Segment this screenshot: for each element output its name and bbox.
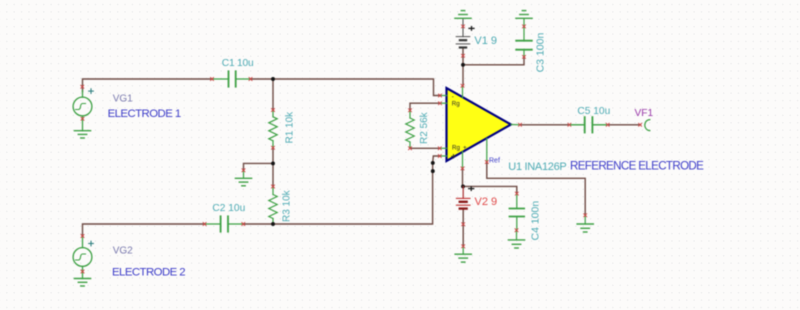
wire R2 bottom to Rg bottom pin — [410, 147, 440, 149]
node C1/R1 junction — [271, 77, 275, 81]
svg-text:C1 10u: C1 10u — [222, 58, 254, 69]
wire middle column C1 junction down to R1 — [272, 79, 274, 110]
wire op-amp V- down to V2 junction — [462, 168, 464, 186]
wire mid node to ground stub — [244, 163, 274, 170]
op-amp U1 triangle — [447, 88, 512, 161]
node R3/bottom wire junction — [271, 222, 275, 226]
op-amp internal pin labels — [452, 94, 467, 152]
ground ref electrode — [577, 215, 593, 232]
svg-text:R1 10k: R1 10k — [285, 111, 296, 144]
wire R2 top to Rg top pin — [410, 103, 440, 110]
wire top electrode1: VG1 to C1 — [83, 79, 213, 92]
node V+ / C3 junction — [461, 63, 465, 67]
ground above C3 — [516, 11, 532, 19]
capacitor C4 — [510, 194, 525, 231]
svg-text:V2 9: V2 9 — [475, 196, 498, 208]
plus sign V1 — [469, 27, 474, 31]
capacitor C3 — [516, 19, 532, 57]
svg-text:C3 100n: C3 100n — [535, 33, 547, 73]
svg-text:VG1: VG1 — [113, 94, 133, 105]
ground mid (R1/R3 node) — [235, 170, 251, 186]
svg-text:REFERENCE ELECTRODE: REFERENCE ELECTRODE — [570, 159, 704, 172]
svg-text:ELECTRODE 2: ELECTRODE 2 — [112, 266, 185, 278]
wire C5 to VF1 probe — [608, 124, 641, 126]
wire mid node down to R3 — [272, 163, 274, 186]
voltage source VG2 — [73, 236, 92, 279]
wire V+ junction to C3 — [463, 57, 524, 65]
svg-text:V1 9: V1 9 — [474, 35, 497, 47]
probe VF1 — [645, 120, 650, 131]
resistor R1 — [269, 110, 277, 148]
plus sign VG2 — [89, 241, 94, 246]
ground below V2 — [455, 246, 471, 262]
wire C2 right to plus input column — [243, 171, 432, 224]
wire V2 junction to C4 — [463, 186, 517, 193]
svg-text:R3 10k: R3 10k — [282, 189, 293, 222]
svg-text:R2 56k: R2 56k — [419, 111, 430, 144]
ground below VG2 — [74, 279, 90, 287]
svg-text:VG2: VG2 — [113, 246, 133, 257]
node V- / V2 / C4 junction — [461, 184, 465, 188]
wire R1 bottom to mid node — [272, 148, 274, 164]
capacitor C2 — [205, 216, 244, 231]
ground below C4 — [508, 230, 524, 248]
voltage source VG1 — [73, 91, 92, 131]
node plus-input column dot B — [431, 169, 435, 173]
wire V2 bottom to ground — [462, 209, 464, 247]
ground above V1 — [455, 11, 471, 19]
wire plus-input column upper segment — [433, 156, 440, 171]
svg-text:Rg: Rg — [452, 101, 460, 108]
svg-text:C2 10u: C2 10u — [212, 203, 245, 214]
capacitor C1 — [212, 71, 251, 86]
svg-text:Rg: Rg — [452, 144, 460, 151]
wire Ref pin to ref ground — [487, 162, 585, 215]
battery V2 — [456, 186, 470, 208]
plus sign VG1 — [89, 89, 94, 94]
svg-text:Ref: Ref — [489, 158, 500, 165]
resistor R2 — [406, 110, 414, 148]
wire op-amp output to C5 — [520, 124, 569, 126]
plus sign V2 — [469, 187, 474, 191]
battery V1 — [456, 19, 470, 48]
svg-text:VF1: VF1 — [635, 108, 654, 119]
capacitor C5 — [569, 117, 607, 132]
op-amp pin stubs — [440, 86, 520, 169]
ground below VG1 — [74, 131, 90, 138]
svg-text:U1 INA126P: U1 INA126P — [508, 161, 566, 173]
node R1/R3/ground junction — [271, 161, 275, 165]
wire V+ junction down to op-amp — [462, 65, 464, 86]
svg-text:+: + — [463, 144, 467, 151]
wire V1 bottom to V+ junction — [462, 48, 464, 65]
svg-text:ELECTRODE 1: ELECTRODE 1 — [108, 108, 181, 120]
svg-text:C4 100n: C4 100n — [530, 201, 542, 241]
resistor R3 — [269, 187, 277, 225]
wire C1 right to op-amp minus input jog — [251, 79, 441, 96]
pin cross marks — [81, 25, 642, 273]
node plus-input column dot A — [431, 161, 435, 165]
svg-text:C5 10u: C5 10u — [577, 106, 610, 117]
wire bottom electrode2: VG2 to C2 — [83, 224, 205, 236]
